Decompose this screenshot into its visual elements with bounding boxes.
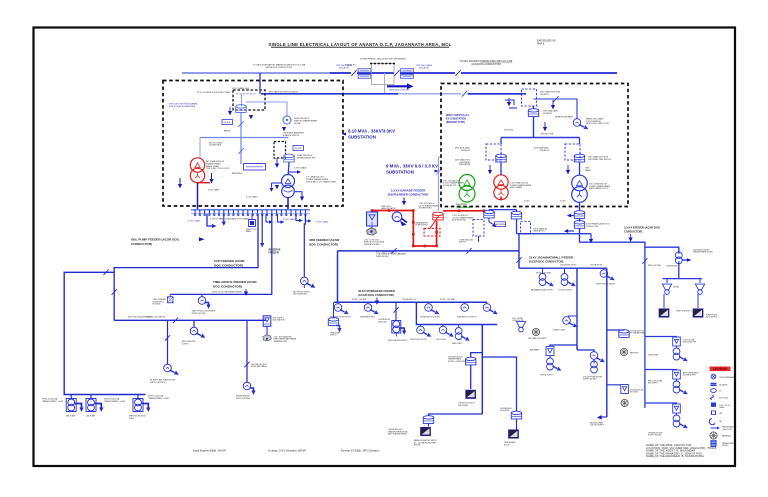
capacitor bank box [246, 214, 257, 233]
funnels [662, 279, 671, 295]
bottom jog [601, 416, 607, 418]
svg-text:(INDOOR TYPE): (INDOOR TYPE) [446, 121, 465, 124]
svg-text:(ACSR DOG CONDUCTOR): (ACSR DOG CONDUCTOR) [529, 259, 564, 263]
isolator on left branch [103, 270, 108, 276]
wire [428, 423, 430, 426]
svg-text:(EMCO MAKE) DYN 11: (EMCO MAKE) DYN 11 [589, 187, 608, 190]
line transformer right [400, 69, 414, 79]
substation boundary dashed box [163, 81, 343, 207]
feeder arrow A10 [489, 222, 498, 229]
transformer TR1 (3 MVA) red [190, 158, 210, 183]
feeder arrow A6 [142, 404, 149, 408]
pot at mundhera line start [328, 302, 341, 332]
svg-text:COLONY SUPPLY: COLONY SUPPLY [590, 425, 605, 427]
wire: drop 416.4 and horizontal 324.5 [416, 302, 497, 324]
svg-text:DUMP (KIOSK): DUMP (KIOSK) [376, 256, 389, 258]
feeder arrow A2 [222, 222, 226, 226]
wire: vertical main 482.3 down [481, 325, 483, 415]
svg-text:CHP FEEDER (ACSR: CHP FEEDER (ACSR [214, 259, 245, 263]
svg-text:KV (KIOSK): KV (KIOSK) [500, 410, 509, 412]
wire [488, 210, 490, 212]
svg-text:33 KV CABLE BOX: 33 KV CABLE BOX [232, 87, 250, 90]
time office kiosk motor [198, 294, 210, 309]
VCB switch V1 [621, 385, 629, 394]
motor load M7 [590, 352, 606, 373]
svg-text:BUS SECTION: BUS SECTION [541, 133, 554, 135]
svg-text:STREET LIGHT: STREET LIGHT [553, 329, 565, 331]
svg-text:DOG CONDUCTOR): DOG CONDUCTOR) [309, 242, 338, 246]
control-room panel P2 [421, 427, 431, 435]
feeder arrow A5 [95, 404, 102, 408]
svg-text:TRANSFORMER) - LIGHT: TRANSFORMER) - LIGHT [104, 400, 126, 403]
wire: long vertical 606.8 [606, 268, 608, 417]
svg-text:LEGEND: LEGEND [713, 367, 728, 371]
wire to far left pole [64, 272, 145, 394]
svg-text:PUMP: PUMP [129, 418, 135, 420]
black dashed small box right chain [274, 142, 286, 159]
wire: TR2 to bus [287, 198, 289, 210]
svg-text:CAP. BANK WITH APFC: CAP. BANK WITH APFC [528, 337, 547, 340]
svg-text:(KIOSK) - DUMP SUPPLY: (KIOSK) - DUMP SUPPLY [448, 361, 469, 363]
kiosk 4 drop [164, 320, 180, 376]
earthing E1 [532, 328, 539, 335]
svg-text:33KV CABLE BOX WITH ISOLATOR: 33KV CABLE BOX WITH ISOLATOR [269, 90, 299, 93]
bus bar [191, 210, 310, 214]
three kiosk groups bottom left [66, 395, 150, 412]
RMU kiosk box [263, 316, 271, 327]
svg-text:33 KV DOUBLE POLE STRUCTURE: 33 KV DOUBLE POLE STRUCTURE [197, 92, 231, 94]
svg-text:TRANSFORMER: TRANSFORMER [456, 206, 472, 209]
wire: 33kv feed bus to substations [261, 93, 398, 95]
cable-box transformer CB5 [619, 330, 629, 338]
svg-text:HOUSE SUPPLY: HOUSE SUPPLY [683, 375, 697, 377]
svg-text:SUBSTATION: SUBSTATION [533, 230, 545, 233]
motor load M2 [364, 302, 380, 316]
wire [137, 395, 139, 399]
svg-text:(ACSR DOG CONDUCTOR): (ACSR DOG CONDUCTOR) [358, 293, 394, 297]
motor load M5 [483, 302, 499, 316]
speaker boxes [659, 294, 669, 317]
wire [645, 403, 677, 404]
svg-text:3.3 KV CABLE: 3.3 KV CABLE [283, 218, 296, 221]
wire: chain 676.5 [644, 325, 646, 408]
wire [357, 72, 394, 74]
bus direction arrow [387, 83, 414, 89]
svg-text:100 KVA 33/0.433 KV: 100 KVA 33/0.433 KV [560, 263, 577, 266]
svg-text:KIOSK 1 (100 KVA): KIOSK 1 (100 KVA) [536, 271, 551, 274]
wire down to TR3 [500, 162, 502, 175]
cable-box transformer CB4 [423, 416, 433, 424]
inner dashed cable box [233, 90, 265, 110]
svg-text:KIOSK 1 (100 KVA: KIOSK 1 (100 KVA [352, 298, 367, 301]
svg-text:6.6 KV: 6.6 KV [524, 200, 530, 202]
wire [191, 213, 310, 215]
svg-text:ISOLATOR: ISOLATOR [540, 93, 550, 96]
svg-text:KIOSK: KIOSK [224, 122, 231, 124]
svg-text:REST SHELTER (VIEW): REST SHELTER (VIEW) [388, 434, 407, 436]
bus comb teeth [195, 210, 305, 215]
wire [198, 182, 211, 184]
svg-text:CONDUCTOR): CONDUCTOR) [624, 230, 642, 234]
motor load M6 [439, 325, 455, 339]
pot transformer PT1 [236, 105, 246, 113]
svg-text:(ACSR DOG CONDUCTOR): (ACSR DOG CONDUCTOR) [586, 122, 609, 125]
kiosk transformer K3 [133, 399, 143, 412]
wire [278, 214, 281, 222]
wire [271, 183, 273, 188]
svg-text:GANG ISOLATOR: GANG ISOLATOR [381, 207, 396, 210]
svg-text:SUBSTATION LT SUPPLY: SUBSTATION LT SUPPLY [457, 315, 478, 318]
wire [211, 173, 213, 179]
wire: down to split [533, 116, 535, 137]
wire: drop mid right to cluster [644, 247, 646, 325]
wire: down at left corner [337, 251, 339, 302]
drop with motor [243, 320, 255, 395]
isolator S2 [553, 96, 558, 102]
wire [579, 228, 581, 242]
speaker box [466, 390, 476, 398]
wire: horizontal 302.3 [334, 301, 487, 303]
svg-text:SUPPLY (KIOSK): SUPPLY (KIOSK) [192, 313, 207, 315]
wire [516, 210, 518, 212]
wire [70, 395, 72, 399]
wire [567, 214, 574, 218]
wire [400, 72, 455, 74]
arrow mid [249, 115, 253, 119]
funnel transformer F1 [695, 279, 704, 295]
svg-text:CIRCUIT BREAKER: CIRCUIT BREAKER [719, 376, 735, 379]
wire [398, 93, 461, 95]
svg-text:TRANSFORMER (KIOSK): TRANSFORMER (KIOSK) [693, 251, 713, 254]
small elbows with arrows [224, 214, 303, 224]
svg-text:33 KV JAGANNATHPALLI FEEDER: 33 KV JAGANNATHPALLI FEEDER [529, 255, 573, 259]
svg-text:KV KIOSK: KV KIOSK [153, 304, 162, 306]
wire [241, 94, 243, 107]
svg-text:OFFICE SUPPLY: OFFICE SUPPLY [540, 374, 554, 376]
svg-text:SUPPLY: SUPPLY [330, 335, 337, 337]
green isolation transformer TR4 [459, 175, 475, 203]
motor load M1 [301, 277, 317, 289]
svg-text:PUMP SUPPLY: PUMP SUPPLY [415, 225, 428, 227]
svg-text:GATE LIGHT: GATE LIGHT [452, 342, 462, 345]
svg-text:DOUBLE BUS: DOUBLE BUS [209, 145, 222, 147]
time office feeder [171, 214, 272, 294]
svg-text:OBL PUMP: OBL PUMP [86, 416, 96, 418]
CHP feeder: wire down [114, 214, 258, 320]
stub to pot right [607, 329, 624, 332]
earthing E4 [710, 432, 717, 439]
branch pot 470.7 [471, 353, 483, 358]
OBL pump feeder elbow [207, 214, 217, 228]
svg-text:3.3 KV FEEDER (ACSR DOG: 3.3 KV FEEDER (ACSR DOG [624, 226, 660, 230]
svg-text:(KIOSK) AT TOP: (KIOSK) AT TOP [443, 184, 457, 187]
wire: middle horizontal [200, 137, 289, 139]
kiosk pair 1 [539, 268, 555, 288]
arrows in top area [507, 98, 511, 106]
cable-box transformer CB1 [574, 221, 584, 229]
funnel + gear at right of 324.5 [516, 322, 525, 332]
feeder arrow A7 [402, 198, 406, 206]
wire [330, 72, 351, 74]
wire: vertical 577 [576, 268, 578, 350]
svg-text:SUPPLY (KIOSK): SUPPLY (KIOSK) [583, 379, 597, 381]
arrow right of TR1 [209, 179, 213, 183]
wire inside top: horizontal to cable box [468, 93, 522, 95]
svg-text:100 KVA 33/0.4 KV: 100 KVA 33/0.4 KV [402, 298, 417, 301]
svg-text:CABLE: CABLE [719, 406, 725, 409]
svg-text:33 KV BUS: 33 KV BUS [504, 129, 514, 131]
svg-text:3RD FEEDER (ACSR: 3RD FEEDER (ACSR [309, 238, 340, 242]
right side feeder device [573, 115, 589, 131]
wire [296, 214, 299, 221]
dashed isolator box left [486, 144, 501, 160]
svg-text:AVR PANEL: AVR PANEL [530, 348, 539, 351]
wire [395, 333, 397, 337]
svg-text:3.3/0.4 KV TRF: 3.3/0.4 KV TRF [512, 320, 524, 322]
transformer TR3 red [494, 175, 508, 200]
wire [179, 178, 181, 184]
right chain: wire down [579, 138, 581, 145]
wire: drop from line to bus arrow [384, 73, 386, 94]
svg-text:(ACSR DOG CONDUCTOR): (ACSR DOG CONDUCTOR) [266, 66, 293, 69]
svg-text:NAME OF THE ENGINEER: B. NANDA: NAME OF THE ENGINEER: B. NANDA PATRA [646, 454, 704, 458]
svg-text:HOUSE: HOUSE [414, 445, 421, 447]
svg-text:TO GRID SUBSTATION JHARSUGUDA: TO GRID SUBSTATION JHARSUGUDA 33 KV D/C … [253, 64, 306, 67]
svg-text:DOG CONDUCTOR): DOG CONDUCTOR) [214, 264, 243, 268]
svg-text:NO 2 SUPPLY: NO 2 SUPPLY [706, 317, 718, 319]
kiosk pair 2 [561, 268, 577, 288]
svg-text:BALARAMPUR (AC) SUPPLY: BALARAMPUR (AC) SUPPLY [531, 288, 554, 291]
wire: main 33kv overhead line [182, 72, 330, 74]
link pot1-pot2 [489, 209, 517, 211]
wire: branch to CT [246, 102, 287, 116]
svg-text:SUMMING UNIT: SUMMING UNIT [274, 341, 288, 343]
svg-text:3.3KV CABLE: 3.3KV CABLE [208, 188, 220, 191]
wire [372, 211, 437, 247]
wire [276, 158, 278, 164]
svg-text:DOG CONDUCTOR): DOG CONDUCTOR) [213, 285, 242, 289]
svg-text:MAP 8: MAP 8 [537, 42, 545, 45]
kiosk tag [222, 120, 233, 125]
control-room panel P3 [693, 294, 703, 317]
pot2 [511, 211, 521, 219]
wire: horizontal under box [517, 233, 592, 235]
isolator S1 [112, 289, 117, 295]
earthing E2 [620, 348, 627, 355]
svg-text:TRANSFORMER) - LIGHT: TRANSFORMER) - LIGHT [42, 400, 64, 403]
svg-text:EARTH: EARTH [224, 129, 231, 132]
svg-text:EARTHING: EARTHING [722, 435, 731, 438]
svg-text:33KV O/H LINE: 33KV O/H LINE [648, 265, 661, 267]
feeder arrow A13 [399, 328, 404, 331]
svg-text:MOBILE EQUIPMENT: MOBILE EQUIPMENT [555, 117, 574, 119]
wire: from cable box down [533, 106, 535, 109]
dashed black top of metering [370, 63, 396, 65]
kiosk transformer K4 [455, 325, 471, 343]
dashed box right of pot2 [521, 221, 531, 234]
arrow left [178, 184, 182, 188]
svg-text:BANK: BANK [246, 230, 252, 233]
svg-text:(EMCO MAKE): (EMCO MAKE) [510, 186, 523, 189]
arrow lower left of TR2 [275, 185, 279, 189]
svg-text:CANTEEN SUPPLY: CANTEEN SUPPLY [360, 315, 376, 318]
wire [645, 336, 677, 339]
arrow [566, 165, 570, 174]
wire: left drop to red transformer [199, 138, 201, 159]
svg-text:KIOSK 2 (100 KVA TRF): KIOSK 2 (100 KVA TRF) [146, 315, 166, 318]
svg-text:(KIOSK): (KIOSK) [722, 445, 729, 447]
svg-text:SUPPLY: SUPPLY [182, 344, 190, 346]
wire: PT1 down [240, 112, 242, 137]
svg-text:ROOM: ROOM [504, 444, 510, 446]
winch symbol below VCB [367, 226, 377, 235]
wire down to TR5 [579, 162, 581, 175]
svg-text:63 KVA: 63 KVA [294, 122, 301, 125]
red switch blade [430, 216, 439, 229]
svg-text:DISCONNECTING SWITCH: DISCONNECTING SWITCH [588, 159, 611, 161]
wire [678, 261, 680, 278]
feeder arrow A8 [551, 100, 555, 109]
svg-text:STORE SUPPLY (KIOSK): STORE SUPPLY (KIOSK) [420, 316, 440, 318]
wire [271, 46, 449, 48]
wire [579, 218, 581, 221]
wire: PT2 down [287, 162, 290, 175]
svg-text:EARTH PIT: EARTH PIT [630, 351, 639, 354]
motor load M4 [461, 302, 469, 311]
svg-text:TRANSFORMER) - VIEW: TRANSFORMER) - VIEW [148, 397, 169, 400]
left chain: wire down [500, 138, 502, 145]
svg-text:ISOLATOR: ISOLATOR [540, 149, 550, 152]
metering cubicle box [372, 64, 395, 85]
svg-text:CENTRAL W/S: CENTRAL W/S [666, 264, 678, 267]
branch to right device [534, 99, 578, 115]
wire [470, 365, 472, 389]
kiosk transformer K7 [673, 370, 689, 396]
isolator [462, 91, 467, 97]
svg-text:KIOSK 2 (100 KVA): KIOSK 2 (100 KVA) [440, 298, 455, 301]
isolator S7 [516, 257, 521, 263]
svg-text:COLONY SUPPLY: COLONY SUPPLY [558, 289, 573, 291]
svg-text:KV TRANSFORMER: KV TRANSFORMER [630, 332, 647, 335]
wire [645, 369, 677, 372]
arrow [543, 122, 547, 131]
wire [272, 182, 282, 184]
components on 302.3 [334, 302, 350, 316]
wire [564, 229, 574, 233]
mid chain below box: pot1 [484, 210, 494, 218]
svg-text:GUEST HOUSE SUPPLY: GUEST HOUSE SUPPLY [596, 283, 616, 285]
svg-text:CONDUCTOR): CONDUCTOR) [586, 226, 599, 228]
svg-text:100 KVA KIOSK: 100 KVA KIOSK [590, 263, 603, 266]
isolator S3 [642, 258, 647, 264]
svg-text:AT VIEW POINT: AT VIEW POINT [419, 207, 433, 210]
svg-text:ISOLATOR: ISOLATOR [461, 149, 471, 152]
reserve feeder [260, 214, 264, 247]
transformer TR5 blue [572, 175, 588, 202]
wire [461, 72, 617, 74]
stub arrow right end [589, 234, 593, 244]
svg-text:TO MCL RAIGARH JHARSUGUDA 33KV: TO MCL RAIGARH JHARSUGUDA 33KV D/C LINE [460, 60, 513, 63]
wire: long horizontal 250.9 [338, 250, 520, 252]
sheet note top right [537, 40, 556, 46]
wire [90, 395, 92, 399]
isolator [455, 70, 460, 76]
feeder arrow A11 [629, 234, 633, 242]
svg-text:9 MVA , 33KV 6.6 / 3.3 KV: 9 MVA , 33KV 6.6 / 3.3 KV [386, 164, 438, 169]
isolator [238, 148, 243, 154]
wire [223, 214, 225, 222]
isolator S5 [466, 248, 471, 254]
svg-text:3.3 KV CABLE: 3.3 KV CABLE [316, 221, 329, 224]
second branch vbox [607, 384, 621, 386]
wire [468, 93, 526, 95]
svg-text:REST SHELTER SUPPLY: REST SHELTER SUPPLY [388, 340, 408, 342]
svg-text:SUBSTATION: SUBSTATION [459, 163, 471, 166]
wire [246, 166, 263, 168]
svg-text:SUPPLY: SUPPLY [459, 242, 467, 244]
feeder arrow A12 [375, 298, 379, 305]
svg-text:ISOLATOR: ISOLATOR [719, 384, 728, 387]
wire [294, 192, 302, 197]
VCB panel [367, 212, 378, 226]
svg-text:SUBSTATION: SUBSTATION [386, 170, 414, 175]
metering tag [495, 222, 506, 227]
control-room panel P1 [509, 430, 519, 438]
svg-text:8.10 MVA , 33KV/3.3KV: 8.10 MVA , 33KV/3.3KV [348, 129, 395, 134]
wire: corner to pump cluster [577, 350, 594, 352]
isolator [173, 318, 178, 324]
label outside left [386, 164, 439, 175]
components on 324.5 [417, 325, 433, 339]
substation boundary dashed box [441, 84, 628, 207]
svg-text:METERING: METERING [232, 173, 243, 175]
svg-text:33/0.433 KV TRF: 33/0.433 KV TRF [683, 342, 696, 344]
svg-text:DYN 11 IMP: 7.15% VOLTS: DYN 11 IMP: 7.15% VOLTS [206, 168, 230, 170]
kiosk tag right [293, 146, 304, 151]
kiosk transformer K2 [86, 399, 96, 412]
svg-text:SUBSTATION: SUBSTATION [348, 135, 376, 140]
svg-text:CETI ROOM: CETI ROOM [436, 339, 446, 341]
svg-text:LOAD POINT: LOAD POINT [722, 428, 732, 431]
svg-text:FIRST AID ROOM SUPPLY: FIRST AID ROOM SUPPLY [330, 315, 352, 318]
red pot transformer [433, 212, 443, 220]
branch right 516.5 [482, 357, 516, 412]
svg-text:KIOSK: KIOSK [295, 148, 302, 150]
svg-text:TRF: TRF [719, 413, 722, 415]
svg-text:DYN 11 IMP: 7.15% (MAKE: NGEF): DYN 11 IMP: 7.15% (MAKE: NGEF) [306, 180, 337, 183]
svg-text:METERING: METERING [496, 224, 507, 226]
transformer TR2 (5 MVA) blue [270, 170, 305, 201]
wire: feed down from under-box bus [518, 234, 520, 251]
svg-text:SUBSTATION END: SUBSTATION END [364, 243, 380, 246]
line transformer left [358, 69, 372, 79]
svg-text:3.3 KV CABLE: 3.3 KV CABLE [246, 195, 259, 198]
isolator S6 [392, 302, 407, 336]
wire [266, 214, 269, 222]
cable-box transformer CB2 [466, 357, 476, 365]
svg-text:3.3 KV CABLE: 3.3 KV CABLE [188, 220, 201, 223]
wire [266, 326, 268, 335]
earthing E3 [621, 399, 628, 406]
svg-text:ISOLATOR: ISOLATOR [419, 67, 429, 70]
isolator [394, 70, 399, 76]
cable-box transformer CB3 [511, 411, 521, 419]
kiosk transformer K8 [673, 404, 689, 430]
line-end kiosk glyph [168, 294, 174, 302]
wire [305, 219, 311, 222]
wire: horizontal distribution line [114, 319, 266, 321]
svg-text:CT: CT [719, 391, 721, 393]
